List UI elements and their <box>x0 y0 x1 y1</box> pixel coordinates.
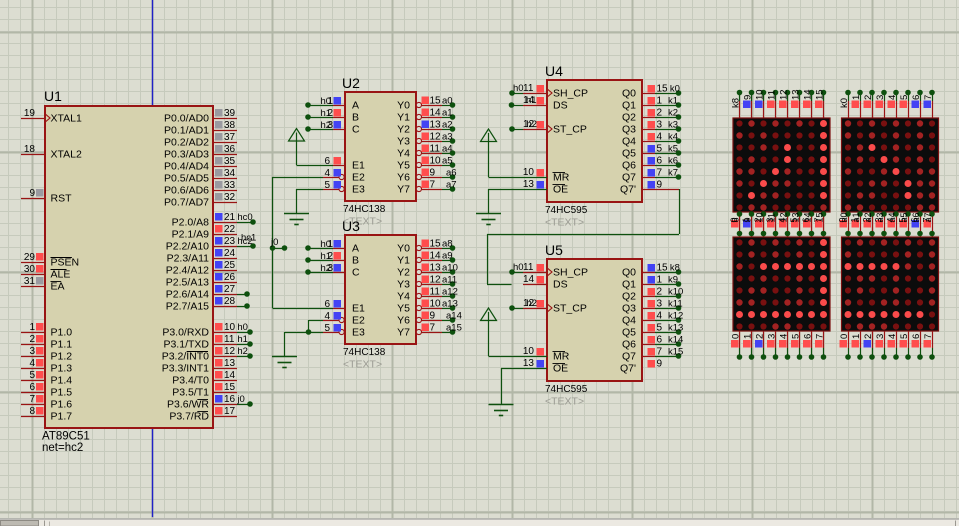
svg-text:j0: j0 <box>236 394 244 405</box>
svg-text:a6: a6 <box>446 168 457 179</box>
svg-text:5: 5 <box>791 334 802 339</box>
svg-text:2: 2 <box>862 217 872 222</box>
svg-text:U3: U3 <box>342 218 360 234</box>
svg-text:Q0: Q0 <box>622 267 636 279</box>
svg-text:Q7': Q7' <box>620 363 636 375</box>
svg-text:E2: E2 <box>352 172 365 184</box>
svg-text:18: 18 <box>24 144 36 155</box>
svg-text:10: 10 <box>430 156 442 167</box>
svg-text:4: 4 <box>324 311 330 322</box>
svg-text:1: 1 <box>657 96 663 107</box>
svg-text:<TEXT>: <TEXT> <box>545 217 584 229</box>
svg-text:7: 7 <box>430 180 436 191</box>
svg-text:Y7: Y7 <box>397 327 410 339</box>
svg-text:30: 30 <box>24 264 36 275</box>
svg-text:2: 2 <box>755 334 766 339</box>
svg-text:12: 12 <box>430 132 442 143</box>
svg-text:5: 5 <box>657 323 663 334</box>
svg-text:k0: k0 <box>839 98 850 108</box>
svg-text:11: 11 <box>523 83 534 94</box>
svg-text:11: 11 <box>430 287 441 298</box>
svg-text:P2.3/A11: P2.3/A11 <box>167 253 210 265</box>
svg-text:a1: a1 <box>442 108 453 119</box>
svg-text:7: 7 <box>923 95 934 100</box>
svg-text:10: 10 <box>523 346 535 357</box>
svg-text:1: 1 <box>851 334 862 339</box>
svg-text:12: 12 <box>779 89 790 100</box>
svg-text:P0.1/AD1: P0.1/AD1 <box>164 125 209 137</box>
svg-text:2: 2 <box>328 108 334 119</box>
svg-text:4: 4 <box>657 132 663 143</box>
svg-text:P0.2/AD2: P0.2/AD2 <box>164 137 209 149</box>
svg-text:k11: k11 <box>668 299 683 310</box>
svg-text:1: 1 <box>743 334 754 339</box>
svg-text:3: 3 <box>328 120 334 131</box>
svg-text:k3: k3 <box>668 120 678 131</box>
svg-text:net=hc2: net=hc2 <box>42 442 83 454</box>
svg-text:U4: U4 <box>545 63 563 79</box>
svg-text:6: 6 <box>911 334 922 339</box>
svg-text:j0: j0 <box>270 237 278 248</box>
svg-text:14: 14 <box>803 89 814 100</box>
svg-text:28: 28 <box>224 296 236 307</box>
svg-text:11: 11 <box>767 90 778 100</box>
svg-text:1: 1 <box>328 96 334 107</box>
svg-text:9: 9 <box>657 180 663 191</box>
svg-text:k2: k2 <box>668 108 678 119</box>
svg-text:EA: EA <box>51 281 65 293</box>
svg-text:P3.6/WR: P3.6/WR <box>167 399 209 411</box>
svg-text:6: 6 <box>657 156 663 167</box>
svg-text:10: 10 <box>224 322 236 333</box>
svg-text:Q7: Q7 <box>622 172 636 184</box>
svg-text:4: 4 <box>886 217 896 222</box>
svg-text:3: 3 <box>874 217 884 222</box>
svg-text:13: 13 <box>430 120 442 131</box>
svg-text:74HC595: 74HC595 <box>545 384 588 395</box>
svg-text:P1.6: P1.6 <box>51 399 73 411</box>
svg-text:a5: a5 <box>442 156 453 167</box>
svg-text:<TEXT>: <TEXT> <box>545 396 584 408</box>
svg-text:2: 2 <box>657 287 663 298</box>
svg-text:h1: h1 <box>237 334 248 345</box>
svg-text:1: 1 <box>29 322 35 333</box>
svg-text:U1: U1 <box>44 88 62 104</box>
svg-text:h0: h0 <box>513 83 524 94</box>
svg-text:Y4: Y4 <box>397 148 410 160</box>
svg-text:P1.0: P1.0 <box>51 327 73 339</box>
svg-text:33: 33 <box>224 180 236 191</box>
svg-text:E2: E2 <box>352 315 365 327</box>
svg-text:k8: k8 <box>670 263 680 274</box>
svg-text:4: 4 <box>887 95 898 100</box>
svg-text:Y3: Y3 <box>397 136 410 148</box>
svg-text:3: 3 <box>657 120 663 131</box>
svg-text:Y2: Y2 <box>397 267 410 279</box>
svg-text:13: 13 <box>523 358 535 369</box>
svg-text:P3.5/T1: P3.5/T1 <box>172 387 209 399</box>
svg-text:a0: a0 <box>442 96 453 107</box>
svg-text:1: 1 <box>850 217 860 222</box>
svg-text:13: 13 <box>791 89 802 100</box>
svg-text:Q6: Q6 <box>622 339 636 351</box>
svg-text:23: 23 <box>224 236 236 247</box>
svg-text:24: 24 <box>224 248 236 259</box>
svg-text:k14: k14 <box>668 335 683 346</box>
svg-text:3: 3 <box>767 334 778 339</box>
svg-text:P2.7/A15: P2.7/A15 <box>166 301 209 313</box>
svg-text:2: 2 <box>29 334 35 345</box>
svg-text:Y3: Y3 <box>397 279 410 291</box>
svg-text:U2: U2 <box>342 75 360 91</box>
svg-text:7: 7 <box>657 168 663 179</box>
svg-text:5: 5 <box>899 95 910 100</box>
svg-text:1: 1 <box>851 95 862 100</box>
svg-text:74HC138: 74HC138 <box>343 347 386 358</box>
svg-text:DS: DS <box>553 100 568 112</box>
svg-text:AT89C51: AT89C51 <box>42 431 90 443</box>
svg-text:A: A <box>352 100 359 112</box>
svg-text:15: 15 <box>430 239 442 250</box>
svg-text:7: 7 <box>922 217 932 222</box>
svg-text:Q0: Q0 <box>622 88 636 100</box>
svg-text:ST_CP: ST_CP <box>553 124 587 136</box>
svg-text:9: 9 <box>743 95 754 100</box>
svg-text:P2.0/A8: P2.0/A8 <box>172 217 210 229</box>
svg-text:11: 11 <box>430 144 441 155</box>
svg-text:4: 4 <box>777 217 787 222</box>
svg-text:k10: k10 <box>668 287 683 298</box>
svg-text:a14: a14 <box>446 311 462 322</box>
svg-text:38: 38 <box>224 120 236 131</box>
svg-text:Q3: Q3 <box>622 303 636 315</box>
svg-text:E3: E3 <box>352 327 365 339</box>
svg-text:5: 5 <box>324 323 330 334</box>
svg-text:13: 13 <box>523 179 535 190</box>
svg-text:14: 14 <box>224 370 236 381</box>
svg-text:C: C <box>352 267 360 279</box>
svg-text:P0.5/AD5: P0.5/AD5 <box>164 173 209 185</box>
svg-text:C: C <box>352 124 360 136</box>
svg-text:1: 1 <box>741 217 751 222</box>
svg-text:P3.4/T0: P3.4/T0 <box>172 375 209 387</box>
svg-text:36: 36 <box>224 144 236 155</box>
svg-text:hc0: hc0 <box>237 212 252 223</box>
svg-text:U5: U5 <box>545 242 563 258</box>
svg-text:a2: a2 <box>442 120 453 131</box>
svg-text:a3: a3 <box>442 132 453 143</box>
svg-text:Q2: Q2 <box>622 112 636 124</box>
svg-text:B: B <box>352 112 359 124</box>
svg-text:0: 0 <box>839 334 850 339</box>
svg-text:Q1: Q1 <box>622 279 636 291</box>
svg-text:4: 4 <box>657 311 663 322</box>
svg-text:P1.4: P1.4 <box>51 375 73 387</box>
svg-text:k8: k8 <box>731 98 742 108</box>
svg-text:3: 3 <box>875 95 886 100</box>
svg-text:P0.7/AD7: P0.7/AD7 <box>164 197 209 209</box>
svg-text:Q4: Q4 <box>622 315 636 327</box>
svg-text:5: 5 <box>899 334 910 339</box>
svg-text:E1: E1 <box>352 160 365 172</box>
svg-text:k15: k15 <box>668 347 683 358</box>
svg-text:13: 13 <box>224 358 236 369</box>
svg-text:Y7: Y7 <box>397 184 410 196</box>
svg-text:37: 37 <box>224 132 236 143</box>
svg-text:OE: OE <box>553 184 568 196</box>
svg-text:h2: h2 <box>527 119 538 130</box>
svg-text:2: 2 <box>863 95 874 100</box>
svg-text:35: 35 <box>224 156 236 167</box>
svg-text:2: 2 <box>328 251 334 262</box>
svg-text:k13: k13 <box>668 323 683 334</box>
svg-text:9: 9 <box>430 311 436 322</box>
svg-text:a15: a15 <box>446 323 462 334</box>
svg-text:1: 1 <box>328 239 334 250</box>
svg-text:7: 7 <box>813 217 823 222</box>
svg-text:k6: k6 <box>668 156 678 167</box>
svg-text:25: 25 <box>224 260 236 271</box>
svg-text:2: 2 <box>753 217 763 222</box>
svg-text:6: 6 <box>29 382 35 393</box>
svg-text:<TEXT>: <TEXT> <box>343 359 382 371</box>
svg-text:RST: RST <box>51 193 73 205</box>
svg-text:DS: DS <box>553 279 568 291</box>
svg-text:P2.6/A14: P2.6/A14 <box>166 289 209 301</box>
svg-text:Y6: Y6 <box>397 315 410 327</box>
svg-text:hc1: hc1 <box>241 233 256 244</box>
svg-text:7: 7 <box>923 334 934 339</box>
svg-text:P2.2/A10: P2.2/A10 <box>166 241 209 253</box>
svg-text:E1: E1 <box>352 303 365 315</box>
svg-text:P1.1: P1.1 <box>51 339 73 351</box>
svg-text:0: 0 <box>838 217 848 222</box>
svg-text:ALE: ALE <box>51 269 71 281</box>
svg-text:12: 12 <box>430 275 442 286</box>
svg-text:14: 14 <box>430 251 442 262</box>
svg-text:XTAL2: XTAL2 <box>51 149 82 161</box>
svg-text:P3.2/INT0: P3.2/INT0 <box>162 351 209 363</box>
svg-text:OE: OE <box>553 363 568 375</box>
svg-text:3: 3 <box>328 263 334 274</box>
svg-text:P0.0/AD0: P0.0/AD0 <box>164 113 209 125</box>
svg-text:3: 3 <box>875 334 886 339</box>
svg-text:6: 6 <box>657 335 663 346</box>
svg-text:Q1: Q1 <box>622 100 636 112</box>
svg-text:P2.1/A9: P2.1/A9 <box>172 229 210 241</box>
svg-text:Y1: Y1 <box>397 112 410 124</box>
svg-text:a9: a9 <box>442 251 453 262</box>
svg-text:h1: h1 <box>526 95 537 106</box>
svg-text:a8: a8 <box>442 239 453 250</box>
svg-text:1: 1 <box>657 275 663 286</box>
svg-text:Y0: Y0 <box>397 243 410 255</box>
svg-text:P0.3/AD3: P0.3/AD3 <box>164 149 209 161</box>
svg-text:11: 11 <box>224 334 235 345</box>
svg-text:k0: k0 <box>670 84 680 95</box>
svg-text:5: 5 <box>657 144 663 155</box>
svg-text:15: 15 <box>657 84 669 95</box>
svg-text:Y1: Y1 <box>397 255 410 267</box>
svg-text:2: 2 <box>863 334 874 339</box>
svg-text:Y0: Y0 <box>397 100 410 112</box>
svg-text:9: 9 <box>430 168 436 179</box>
svg-text:6: 6 <box>911 95 922 100</box>
svg-text:E3: E3 <box>352 184 365 196</box>
svg-text:5: 5 <box>29 370 35 381</box>
svg-text:0: 0 <box>731 334 742 339</box>
svg-text:7: 7 <box>815 334 826 339</box>
svg-text:74HC595: 74HC595 <box>545 205 588 216</box>
svg-text:ST_CP: ST_CP <box>553 303 587 315</box>
svg-text:a10: a10 <box>442 263 458 274</box>
svg-text:Y2: Y2 <box>397 124 410 136</box>
svg-text:7: 7 <box>430 323 436 334</box>
svg-text:a7: a7 <box>446 180 457 191</box>
svg-text:k12: k12 <box>668 311 683 322</box>
svg-text:27: 27 <box>224 284 236 295</box>
svg-text:74HC138: 74HC138 <box>343 204 386 215</box>
svg-text:P2.5/A13: P2.5/A13 <box>166 277 209 289</box>
svg-text:P1.2: P1.2 <box>51 351 73 363</box>
svg-text:32: 32 <box>224 192 236 203</box>
svg-text:6: 6 <box>803 334 814 339</box>
svg-text:39: 39 <box>224 108 236 119</box>
svg-text:19: 19 <box>24 108 36 119</box>
svg-text:4: 4 <box>887 334 898 339</box>
svg-text:5: 5 <box>898 217 908 222</box>
svg-text:0: 0 <box>729 217 739 222</box>
svg-text:26: 26 <box>224 272 236 283</box>
svg-text:21: 21 <box>224 212 236 223</box>
svg-text:Y6: Y6 <box>397 172 410 184</box>
svg-text:SH_CP: SH_CP <box>553 88 588 100</box>
svg-text:P0.4/AD4: P0.4/AD4 <box>164 161 209 173</box>
svg-text:k7: k7 <box>668 168 678 179</box>
svg-text:h2: h2 <box>527 298 538 309</box>
svg-text:P3.0/RXD: P3.0/RXD <box>162 327 209 339</box>
svg-text:A: A <box>352 243 359 255</box>
svg-text:Q5: Q5 <box>622 148 636 160</box>
svg-text:10: 10 <box>755 89 766 100</box>
svg-text:P0.6/AD6: P0.6/AD6 <box>164 185 209 197</box>
svg-text:Y4: Y4 <box>397 291 410 303</box>
svg-text:k4: k4 <box>668 132 678 143</box>
svg-text:Y5: Y5 <box>397 160 410 172</box>
svg-text:3: 3 <box>657 299 663 310</box>
svg-text:P1.3: P1.3 <box>51 363 73 375</box>
svg-text:k1: k1 <box>668 96 678 107</box>
svg-text:7: 7 <box>657 347 663 358</box>
svg-text:4: 4 <box>779 334 790 339</box>
svg-text:9: 9 <box>29 188 35 199</box>
svg-text:P2.4/A12: P2.4/A12 <box>166 265 209 277</box>
svg-text:15: 15 <box>224 382 236 393</box>
svg-text:Q4: Q4 <box>622 136 636 148</box>
svg-text:a4: a4 <box>442 144 453 155</box>
svg-text:13: 13 <box>430 263 442 274</box>
svg-text:8: 8 <box>29 406 35 417</box>
svg-text:MR: MR <box>553 351 570 363</box>
svg-text:P3.1/TXD: P3.1/TXD <box>163 339 209 351</box>
svg-text:h2: h2 <box>237 346 248 357</box>
svg-text:14: 14 <box>523 274 535 285</box>
svg-text:Q7: Q7 <box>622 351 636 363</box>
svg-text:a12: a12 <box>442 287 458 298</box>
svg-text:29: 29 <box>24 252 36 263</box>
svg-text:k5: k5 <box>668 144 678 155</box>
svg-text:Q2: Q2 <box>622 291 636 303</box>
svg-text:4: 4 <box>324 168 330 179</box>
svg-text:14: 14 <box>430 108 442 119</box>
svg-text:P1.5: P1.5 <box>51 387 73 399</box>
svg-text:3: 3 <box>29 346 35 357</box>
svg-text:P3.3/INT1: P3.3/INT1 <box>162 363 209 375</box>
svg-text:5: 5 <box>789 217 799 222</box>
svg-text:34: 34 <box>224 168 236 179</box>
svg-text:Q6: Q6 <box>622 160 636 172</box>
svg-text:h0: h0 <box>237 322 248 333</box>
svg-text:3: 3 <box>765 217 775 222</box>
svg-text:15: 15 <box>657 263 669 274</box>
svg-text:5: 5 <box>324 180 330 191</box>
svg-text:k9: k9 <box>668 275 678 286</box>
svg-text:11: 11 <box>523 262 534 273</box>
svg-text:16: 16 <box>224 394 236 405</box>
svg-text:a13: a13 <box>442 299 458 310</box>
svg-text:XTAL1: XTAL1 <box>51 113 82 125</box>
svg-text:22: 22 <box>224 224 236 235</box>
svg-text:2: 2 <box>657 108 663 119</box>
svg-text:4: 4 <box>29 358 35 369</box>
svg-text:P3.7/RD: P3.7/RD <box>169 411 209 423</box>
svg-text:Q7': Q7' <box>620 184 636 196</box>
svg-text:10: 10 <box>523 167 535 178</box>
svg-text:h0: h0 <box>513 262 524 273</box>
svg-text:7: 7 <box>29 394 35 405</box>
svg-text:15: 15 <box>815 89 826 100</box>
svg-text:a11: a11 <box>442 275 457 286</box>
svg-text:15: 15 <box>430 96 442 107</box>
svg-text:6: 6 <box>910 217 920 222</box>
svg-text:12: 12 <box>224 346 236 357</box>
svg-text:SH_CP: SH_CP <box>553 267 588 279</box>
svg-text:MR: MR <box>553 172 570 184</box>
svg-text:P1.7: P1.7 <box>51 411 73 423</box>
svg-text:B: B <box>352 255 359 267</box>
svg-text:PSEN: PSEN <box>51 257 80 269</box>
svg-text:31: 31 <box>24 276 36 287</box>
svg-text:Q5: Q5 <box>622 327 636 339</box>
svg-text:9: 9 <box>657 359 663 370</box>
svg-text:6: 6 <box>801 217 811 222</box>
svg-text:Y5: Y5 <box>397 303 410 315</box>
svg-text:10: 10 <box>430 299 442 310</box>
svg-text:17: 17 <box>224 406 236 417</box>
svg-text:Q3: Q3 <box>622 124 636 136</box>
